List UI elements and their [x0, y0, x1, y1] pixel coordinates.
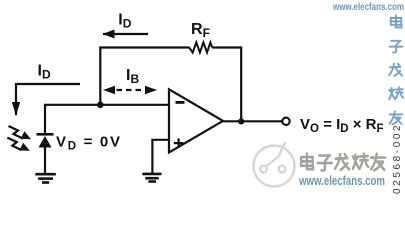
wire: feedback top horizontal (right of RF) [212, 46, 241, 48]
watermark vertical 电子发烧友 (right edge) [389, 15, 403, 124]
resistor RF [189, 42, 212, 52]
ground (photodiode) [35, 174, 55, 182]
watermark logo circle (bottom right) [254, 142, 295, 187]
light arrow 1 [9, 126, 32, 139]
output terminal [282, 118, 289, 125]
annotation arrow ID (top, pointing left) [103, 33, 148, 35]
node junction (inverting input) [97, 102, 104, 109]
node junction (output/feedback) [238, 118, 244, 124]
svg-text:02568-002: 02568-002 [392, 123, 403, 194]
ground (op-amp non-inverting input) [142, 174, 161, 182]
photodiode D1 [37, 133, 54, 174]
wire: feedback top horizontal (left of RF) [99, 46, 189, 48]
svg-text:www.elecfans.com: www.elecfans.com [298, 174, 385, 188]
svg-text:VD = 0V: VD = 0V [56, 134, 122, 153]
watermark text 电子发烧友 (bottom right) [302, 155, 386, 172]
svg-text:www.elecfans.com: www.elecfans.com [332, 2, 404, 13]
wire: feedback left vertical [99, 48, 101, 105]
wire: output [222, 120, 282, 122]
op-amp U1 [169, 89, 223, 152]
wire: feedback right vertical [240, 47, 242, 122]
annotation arrow IB (dashed, double-headed) [103, 86, 157, 95]
annotation arrow ID (left, L-shaped pointing down) [16, 84, 80, 115]
light arrow 2 [7, 138, 30, 151]
wire: non-inverting input [152, 140, 169, 173]
wire: main input horizontal (photodiode to op-amp inverting input) [45, 104, 169, 106]
wire: photodiode top vertical [44, 104, 46, 133]
